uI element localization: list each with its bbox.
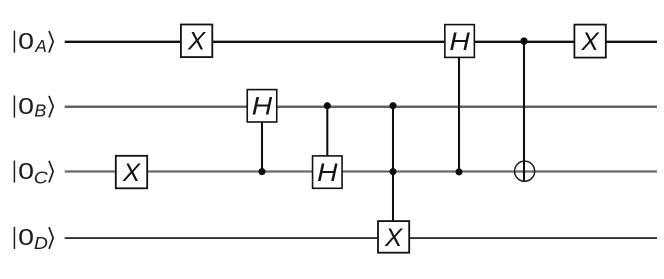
- wire qubit C: [65, 170, 657, 172]
- svg-text:0: 0: [18, 27, 34, 54]
- control dot col7 on A: [520, 37, 527, 44]
- control dot col4 on B: [324, 102, 331, 109]
- svg-text:C: C: [34, 167, 49, 187]
- svg-text:A: A: [34, 36, 47, 56]
- node label ket |0_C>: [14, 157, 53, 187]
- wire control connector col6 (H on A controlled by C): [458, 57, 460, 172]
- svg-text:0: 0: [18, 92, 34, 119]
- node label ket |0_B>: [14, 92, 53, 120]
- svg-text:X: X: [122, 159, 141, 186]
- control dot col6 on C: [455, 168, 462, 175]
- svg-text:H: H: [317, 159, 338, 187]
- svg-text:X: X: [580, 28, 599, 55]
- gate H3 on qubit A (controlled): [445, 25, 475, 58]
- svg-text:H: H: [252, 92, 273, 120]
- gate X2 on qubit A: [181, 25, 212, 58]
- gate H1 on qubit B (controlled): [247, 90, 277, 122]
- svg-text:D: D: [34, 233, 48, 253]
- svg-text:H: H: [449, 28, 470, 56]
- node label ket |0_D>: [14, 224, 53, 253]
- wire qubit A: [65, 41, 657, 43]
- CNOT target oplus on qubit C: [515, 161, 535, 181]
- gate X1 on qubit C: [116, 156, 147, 189]
- wire control connector col4 (H on C controlled by B): [326, 106, 328, 156]
- node label ket |0_A>: [14, 27, 53, 55]
- wire control connector col3 (H on B controlled by C): [261, 122, 263, 172]
- gate X4 on qubit A: [574, 25, 605, 58]
- wire qubit D: [65, 237, 657, 239]
- control dot col5 on B: [389, 102, 396, 109]
- wire control connector col7 (CNOT A->C): [523, 41, 525, 181]
- gate X3 on qubit D (double controlled): [378, 221, 409, 253]
- svg-text:B: B: [34, 101, 46, 121]
- control dot col5 on C: [389, 168, 396, 175]
- gate H2 on qubit C (controlled): [313, 156, 343, 188]
- svg-text:0: 0: [18, 224, 34, 251]
- svg-text:X: X: [384, 224, 403, 251]
- control dot col3 on C: [258, 168, 265, 175]
- wire qubit B: [65, 105, 657, 108]
- svg-text:X: X: [187, 28, 206, 55]
- wire control connector col5 (X on D controlled by B,C): [392, 106, 394, 221]
- svg-text:0: 0: [18, 157, 34, 184]
